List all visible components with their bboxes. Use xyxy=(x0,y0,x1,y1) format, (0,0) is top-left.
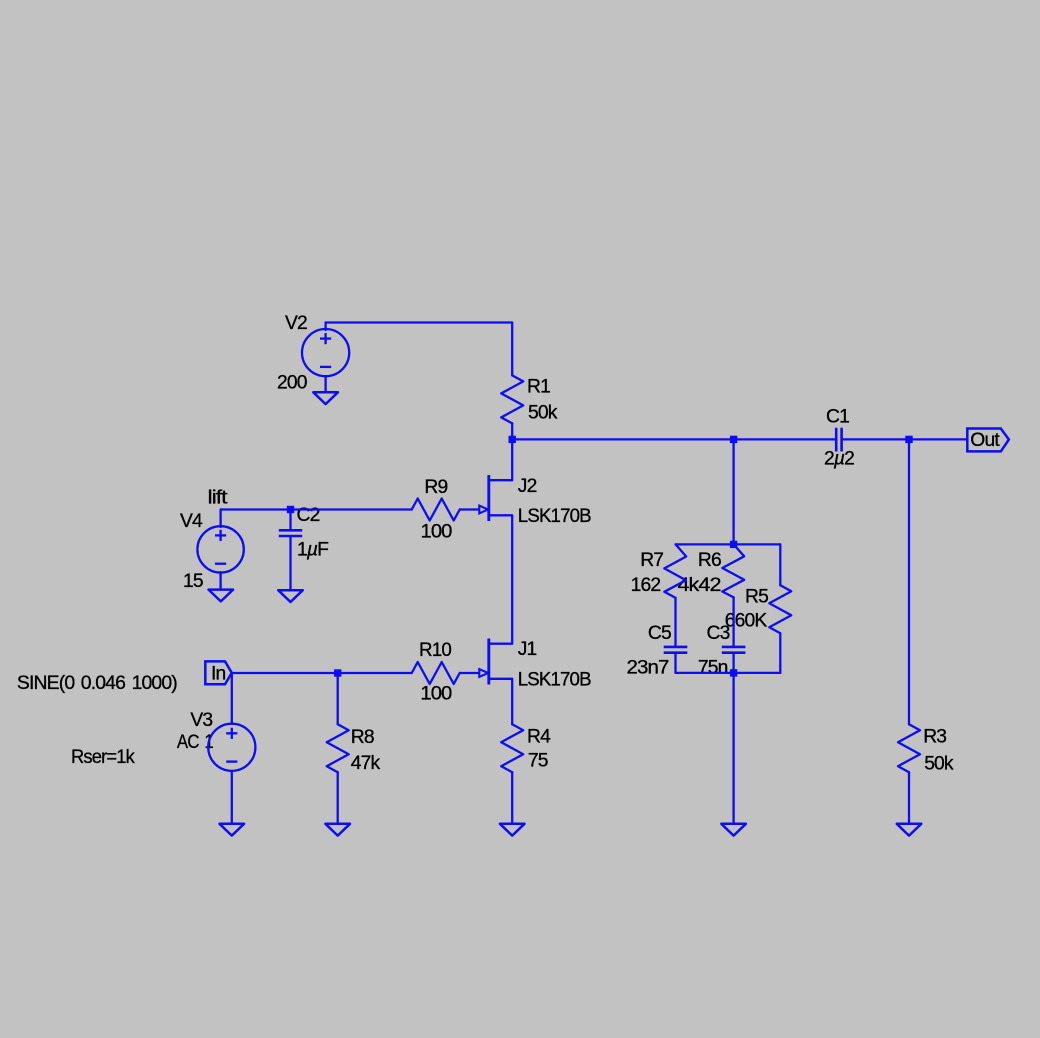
capacitor C3 xyxy=(722,647,746,653)
svg-text:In: In xyxy=(211,663,226,684)
network top rail wire xyxy=(676,543,781,545)
port Out xyxy=(967,429,1009,452)
ground below R8 xyxy=(325,824,350,836)
resistor R5 xyxy=(769,585,791,633)
svg-text:R5: R5 xyxy=(745,587,768,608)
wire network to ground xyxy=(732,673,734,824)
ground below network xyxy=(721,824,746,836)
main output rail wire xyxy=(512,438,835,440)
JFET J2 xyxy=(460,475,513,521)
svg-text:J2: J2 xyxy=(518,476,537,497)
svg-text:C2: C2 xyxy=(297,505,320,526)
svg-text:47k: 47k xyxy=(351,753,381,774)
svg-text:lift: lift xyxy=(208,488,229,509)
svg-text:100: 100 xyxy=(420,684,451,705)
svg-text:15: 15 xyxy=(183,571,203,592)
svg-text:R10: R10 xyxy=(419,640,451,661)
capacitor C5 xyxy=(664,647,688,653)
wire lift net: V4 top to C2 to R9 xyxy=(221,508,412,510)
svg-text:C5: C5 xyxy=(648,623,671,644)
svg-text:LSK170B: LSK170B xyxy=(518,506,591,527)
wire node to R3 xyxy=(908,439,910,724)
wire In down to V3 xyxy=(231,673,233,724)
wire R5 to bottom rail xyxy=(779,633,781,673)
wire C3 to bottom rail xyxy=(732,653,734,673)
ground below V4 xyxy=(209,590,234,602)
svg-text:2µ2: 2µ2 xyxy=(824,449,854,470)
wire V2 top to R1 top xyxy=(326,321,513,323)
wire In to R8 to R10 xyxy=(232,672,412,674)
wire node to J2 drain xyxy=(511,439,513,480)
voltage source V2 xyxy=(324,323,326,331)
svg-text:1µF: 1µF xyxy=(297,540,328,561)
node junction at R1 bottom xyxy=(509,436,516,443)
wire R7 to C5 xyxy=(674,598,676,647)
node junction at feedback branch xyxy=(730,436,737,443)
svg-text:SINE(0 0.046 1000): SINE(0 0.046 1000) xyxy=(17,673,177,694)
wire R6 to C3 xyxy=(732,597,734,647)
voltage source V4 xyxy=(219,510,221,528)
wire J2 source to J1 drain xyxy=(511,515,513,643)
resistor R6 xyxy=(722,544,744,597)
resistor R8 xyxy=(337,673,339,724)
svg-text:LSK170B: LSK170B xyxy=(518,669,591,690)
svg-text:C3: C3 xyxy=(707,623,730,644)
svg-text:C1: C1 xyxy=(826,407,849,428)
svg-text:V3: V3 xyxy=(190,710,212,731)
svg-text:Rser=1k: Rser=1k xyxy=(71,747,135,768)
wire J1 source to R4 xyxy=(511,679,513,724)
svg-text:200: 200 xyxy=(277,373,307,394)
network bottom rail wire xyxy=(676,672,781,674)
svg-text:50k: 50k xyxy=(924,753,954,774)
svg-text:50k: 50k xyxy=(528,403,558,424)
node junction on bottom rail xyxy=(730,669,737,676)
resistor R10 xyxy=(412,662,460,684)
svg-text:75n: 75n xyxy=(698,658,728,679)
port In xyxy=(205,661,232,684)
svg-text:R1: R1 xyxy=(527,377,550,398)
svg-text:V2: V2 xyxy=(285,313,307,334)
svg-text:V4: V4 xyxy=(180,511,203,532)
wire R1 bottom to node xyxy=(511,423,513,439)
wire R5 branch top xyxy=(779,544,781,585)
svg-text:23n7: 23n7 xyxy=(627,658,669,679)
capacitor C2 xyxy=(289,510,291,531)
svg-text:R6: R6 xyxy=(698,550,721,571)
ground below V2 xyxy=(313,392,338,404)
ground below C2 xyxy=(278,590,303,602)
svg-text:100: 100 xyxy=(421,522,452,543)
node junction on top rail xyxy=(730,541,737,548)
voltage source V3 xyxy=(208,724,255,771)
wire C5 to bottom rail xyxy=(674,653,676,673)
svg-text:660K: 660K xyxy=(725,611,768,632)
svg-text:162: 162 xyxy=(631,575,661,596)
svg-text:Out: Out xyxy=(970,430,1000,451)
JFET J1 xyxy=(460,639,513,685)
svg-text:R3: R3 xyxy=(923,727,946,748)
resistor R4 xyxy=(501,724,523,772)
node junction at R8 top xyxy=(334,669,341,676)
ground below R3 xyxy=(897,824,922,836)
svg-text:R8: R8 xyxy=(351,727,374,748)
capacitor C1 xyxy=(836,428,841,452)
wire node down to RC network xyxy=(732,439,734,544)
node junction at R3 branch xyxy=(905,436,912,443)
svg-text:75: 75 xyxy=(528,751,548,772)
ground below V3 xyxy=(220,824,245,836)
resistor R1 xyxy=(501,375,523,423)
resistor R3 xyxy=(898,724,920,772)
wire C1 right to Out port xyxy=(843,438,968,440)
resistor R7 xyxy=(664,544,686,598)
svg-text:R4: R4 xyxy=(527,727,551,748)
resistor R9 xyxy=(412,499,460,521)
node junction at C2 top xyxy=(287,506,294,513)
ground below R4 xyxy=(500,824,525,836)
svg-text:R9: R9 xyxy=(424,477,447,498)
svg-text:J1: J1 xyxy=(518,639,537,660)
svg-text:R7: R7 xyxy=(640,550,663,571)
